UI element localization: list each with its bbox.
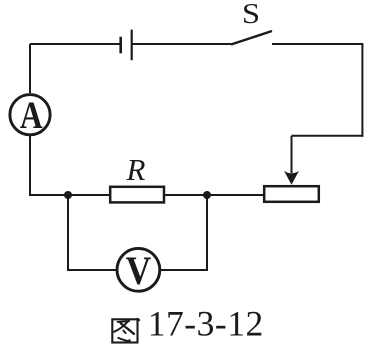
svg-text:S: S — [242, 0, 260, 29]
svg-text:V: V — [126, 249, 151, 294]
svg-text:A: A — [20, 93, 43, 137]
svg-text:R: R — [126, 152, 146, 187]
svg-text:17-3-12: 17-3-12 — [148, 304, 264, 344]
